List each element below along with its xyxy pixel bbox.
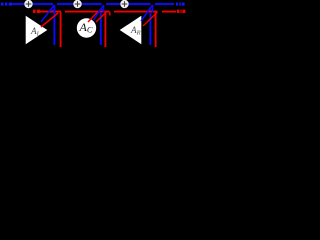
- node label R in (red text, left): [33, 10, 40, 13]
- node label R out (red text, right): [177, 10, 185, 13]
- wire red vertical at A_L: [60, 12, 62, 47]
- wire L bus (blue, top): [12, 3, 174, 5]
- wire red diagonal at A_L: [41, 13, 58, 27]
- wire blue diagonal at A_C: [94, 5, 104, 20]
- node label yL (blue text, top-right): [176, 3, 185, 6]
- wire red vertical at A_R: [155, 13, 157, 48]
- wire blue vertical at A_L: [53, 5, 55, 45]
- wire blue crossbar at A_L junction: [50, 9, 55, 11]
- amplifier A_R (triangle): [120, 16, 142, 44]
- wire red stub at R bus end: [109, 12, 111, 16]
- wire blue crossbar at A_C junction: [99, 9, 103, 11]
- wire blue diagonal at A_R: [141, 5, 153, 21]
- amplifier A_L (triangle): [26, 16, 48, 44]
- wire blue diagonal at A_L: [41, 5, 54, 22]
- wire red diagonal lower at A_C: [96, 13, 105, 22]
- wire R bus (red, second line): [40, 11, 176, 13]
- amplifier A_C (circle): [77, 18, 96, 37]
- wire blue leg at A_C junction: [103, 5, 105, 13]
- wire blue vertical at A_R: [149, 13, 151, 45]
- summing node 1: [24, 0, 32, 8]
- background: [0, 0, 190, 60]
- wire red diagonal at A_R: [143, 13, 157, 27]
- summing node 3: [120, 0, 128, 8]
- wire blue leg at A_R junction: [152, 5, 154, 13]
- wire blue vertical at A_C: [100, 13, 102, 45]
- wire red vertical at A_C: [104, 13, 106, 48]
- node label vI (blue text, top-left): [1, 3, 12, 6]
- wire red diagonal upper at A_C: [88, 12, 98, 22]
- wire blue crossbar at A_R junction: [148, 9, 153, 11]
- summing node 2: [73, 0, 81, 8]
